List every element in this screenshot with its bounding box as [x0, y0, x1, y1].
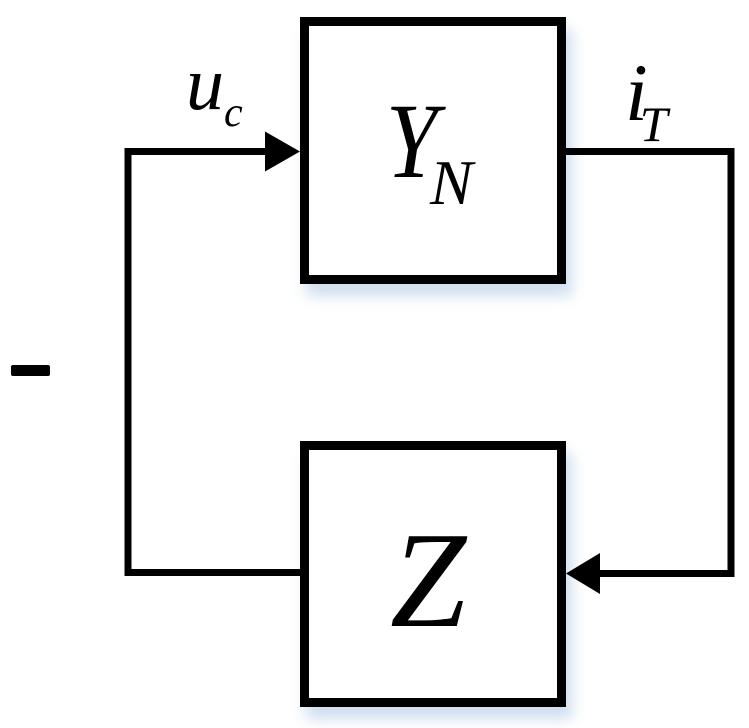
wire: output loop right (iT path)	[566, 152, 731, 574]
block YN	[305, 22, 562, 280]
arrowhead into block Z	[566, 553, 600, 594]
svg-text:uc: uc	[186, 42, 243, 136]
block Z	[305, 446, 562, 703]
shadow of block Z	[306, 453, 572, 719]
minus sign	[11, 365, 50, 376]
svg-text:iT: iT	[625, 47, 671, 152]
svg-text:Z: Z	[390, 504, 468, 656]
arrowhead into block YN	[265, 132, 300, 172]
svg-text:N: N	[429, 147, 476, 218]
wire: feedback loop left (uc path)	[128, 152, 300, 573]
shadow of block YN	[306, 29, 572, 296]
